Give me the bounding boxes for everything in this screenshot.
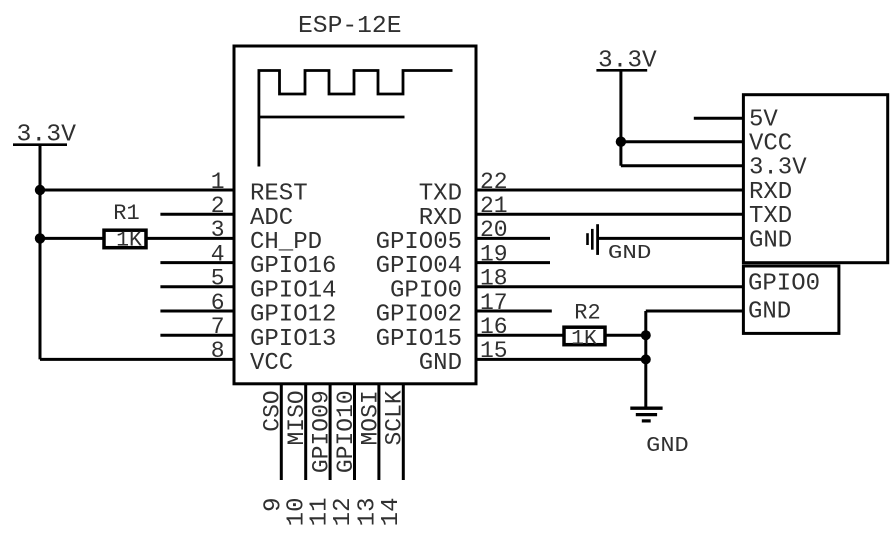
wire pin3 CH_PD to rail via R1 xyxy=(40,237,234,240)
svg-text:4: 4 xyxy=(211,241,225,267)
svg-text:ADC: ADC xyxy=(250,205,293,232)
svg-text:CSO: CSO xyxy=(260,390,286,431)
junction rail/pin1 xyxy=(35,185,45,195)
svg-text:6: 6 xyxy=(211,290,225,316)
svg-text:GPIO0: GPIO0 xyxy=(390,277,462,304)
junction rail/pin3 xyxy=(35,233,45,243)
svg-text:GPIO09: GPIO09 xyxy=(308,390,334,473)
ground symbol (earth) bar 1 xyxy=(630,407,662,410)
svg-text:RXD: RXD xyxy=(749,179,792,206)
svg-text:14: 14 xyxy=(378,498,405,527)
svg-text:GPIO10: GPIO10 xyxy=(333,390,359,473)
svg-text:VCC: VCC xyxy=(749,131,792,158)
wire adapter GND lower xyxy=(646,310,744,313)
wire pin9 CSO drop xyxy=(280,384,283,480)
ground symbol (earth) bar 3 xyxy=(642,419,651,422)
wire pin12 GPIO10 drop xyxy=(353,384,356,480)
junction pin15/ground xyxy=(641,354,651,364)
resistor R1 body xyxy=(104,230,146,248)
junction 3.3V/VCC xyxy=(616,137,626,147)
svg-text:TXD: TXD xyxy=(749,203,792,230)
power symbol 3.3V (top right) bar xyxy=(596,69,647,72)
wire pin5 GPIO14 stub xyxy=(160,285,234,288)
wire pin4 GPIO16 stub xyxy=(160,261,234,264)
svg-text:R2: R2 xyxy=(574,301,600,326)
svg-text:GPIO16: GPIO16 xyxy=(250,253,336,280)
svg-text:5V: 5V xyxy=(749,107,778,134)
svg-text:1K: 1K xyxy=(116,229,142,253)
svg-text:1: 1 xyxy=(211,169,225,195)
wire pin10 MISO drop xyxy=(304,384,307,480)
svg-text:GPIO02: GPIO02 xyxy=(376,302,462,329)
svg-text:3.3V: 3.3V xyxy=(17,122,77,149)
ground symbol (signal) bar short xyxy=(586,233,589,245)
svg-text:GND: GND xyxy=(419,350,462,377)
wire pin13 MOSI drop xyxy=(377,384,380,480)
svg-text:GND: GND xyxy=(748,299,791,326)
wire 5V stub xyxy=(694,117,744,120)
wire pin16 GPIO15 via R2 xyxy=(476,334,646,337)
svg-text:VCC: VCC xyxy=(250,350,293,377)
wire pin19 GPIO04 stub xyxy=(476,261,550,264)
svg-text:TXD: TXD xyxy=(419,181,462,208)
svg-text:MOSI: MOSI xyxy=(357,390,383,445)
wire GND symbol to adapter GND xyxy=(598,237,744,240)
wire pin15 GND xyxy=(476,358,646,361)
svg-text:8: 8 xyxy=(211,338,225,364)
wire pin21 RXD to TXD xyxy=(476,213,743,216)
svg-text:3.3V: 3.3V xyxy=(749,155,807,182)
wire pin2 ADC stub xyxy=(160,213,234,216)
adapter box lower xyxy=(743,266,839,333)
svg-text:REST: REST xyxy=(250,181,308,208)
wire 3.3V drop xyxy=(619,70,622,165)
wire pin11 GPIO09 drop xyxy=(329,384,332,480)
svg-text:GPIO14: GPIO14 xyxy=(250,277,336,304)
net 3.3V left rail wire xyxy=(39,145,42,360)
svg-text:GPIO0: GPIO0 xyxy=(748,271,820,298)
svg-text:GPIO04: GPIO04 xyxy=(376,253,462,280)
antenna feed line xyxy=(259,116,405,119)
wire pin14 SCLK drop xyxy=(402,384,405,480)
svg-text:3: 3 xyxy=(211,217,225,243)
ground symbol (earth) bar 2 xyxy=(636,413,657,416)
wire pin7 GPIO13 stub xyxy=(160,334,234,337)
svg-text:ESP-12E: ESP-12E xyxy=(298,13,402,40)
svg-text:MISO: MISO xyxy=(284,390,310,445)
chip U1 ESP-12E body xyxy=(234,46,476,384)
wire pin8 VCC to rail xyxy=(40,358,234,361)
svg-text:GPIO12: GPIO12 xyxy=(250,302,336,329)
svg-text:12: 12 xyxy=(330,498,357,527)
power symbol 3.3V (left) bar xyxy=(13,143,67,146)
ground symbol (signal) bar long xyxy=(596,224,599,255)
svg-text:3.3V: 3.3V xyxy=(598,47,657,74)
wire pin6 GPIO12 stub xyxy=(160,310,234,313)
wire pin1 REST to rail xyxy=(40,189,234,192)
junction R2/ground xyxy=(641,330,651,340)
svg-text:CH_PD: CH_PD xyxy=(250,229,322,256)
svg-text:5: 5 xyxy=(211,266,225,292)
wire 3.3V to adapter xyxy=(621,164,744,167)
resistor R2 body xyxy=(564,327,605,345)
adapter box upper xyxy=(743,95,887,263)
svg-text:GND: GND xyxy=(608,242,652,264)
svg-text:2: 2 xyxy=(211,193,225,219)
svg-text:GPIO13: GPIO13 xyxy=(250,326,336,353)
svg-text:SCLK: SCLK xyxy=(382,390,408,445)
svg-text:GND: GND xyxy=(749,227,792,254)
antenna meander xyxy=(259,71,453,167)
wire pin20 GPIO05 stub xyxy=(476,237,550,240)
svg-text:GPIO05: GPIO05 xyxy=(376,229,462,256)
svg-text:GPIO15: GPIO15 xyxy=(376,326,462,353)
wire pin18 GPIO0 to adapter xyxy=(476,285,743,288)
svg-text:RXD: RXD xyxy=(419,205,462,232)
wire VCC to adapter xyxy=(621,140,744,143)
svg-text:7: 7 xyxy=(211,314,225,340)
ground symbol (signal) bar mid xyxy=(591,229,594,250)
wire pin17 GPIO02 stub xyxy=(476,310,552,313)
wire ground drop xyxy=(644,311,647,407)
svg-text:R1: R1 xyxy=(113,201,139,226)
svg-text:1K: 1K xyxy=(571,327,597,351)
wire pin22 TXD to RXD xyxy=(476,189,743,192)
svg-text:GND: GND xyxy=(646,435,689,458)
